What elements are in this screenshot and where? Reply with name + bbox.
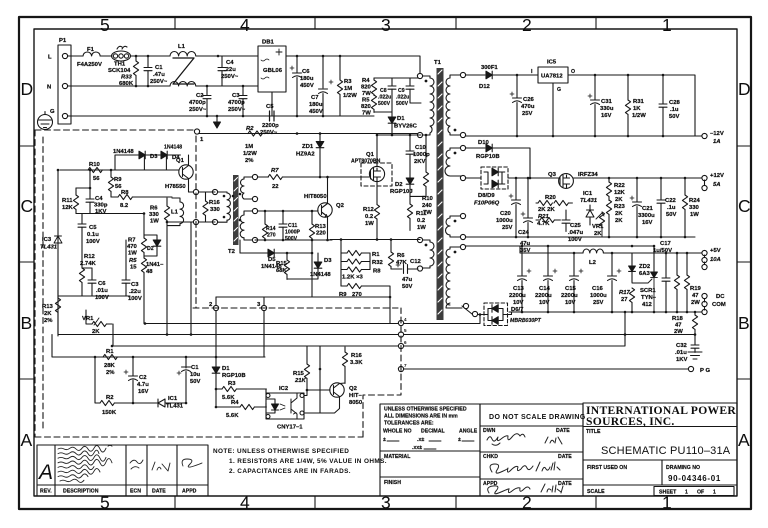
svg-text:GBL06: GBL06 [263, 68, 283, 74]
wire sec B top [465, 147, 485, 149]
svg-text:50V: 50V [666, 212, 677, 218]
svg-text:H78550: H78550 [165, 184, 186, 190]
svg-text:.01u: .01u [675, 350, 687, 356]
svg-text:DESCRIPTION: DESCRIPTION [63, 489, 99, 495]
svg-text:R11: R11 [62, 198, 73, 204]
boundary crossing node 222 [193, 219, 198, 224]
svg-text:DATE: DATE [556, 428, 570, 434]
wire L [68, 55, 84, 57]
svg-text:D3: D3 [150, 154, 158, 160]
svg-text:10V: 10V [539, 300, 550, 306]
svg-text:250V~: 250V~ [228, 107, 246, 113]
node 2 [213, 297, 218, 357]
ECN handwriting [130, 460, 143, 469]
svg-text:1/2W: 1/2W [243, 151, 257, 157]
svg-text:R16: R16 [209, 200, 221, 206]
thermistor TH1 [112, 46, 131, 61]
svg-text:500V: 500V [285, 236, 298, 242]
dashed mid horizontal [193, 307, 398, 309]
svg-text:300F1: 300F1 [481, 65, 498, 71]
T1 bias winding [421, 240, 434, 268]
svg-text:D10: D10 [478, 140, 490, 146]
svg-text:G: G [557, 87, 561, 93]
svg-text:R20: R20 [545, 195, 557, 201]
SCR1 thyristor [632, 246, 657, 312]
capacitor C8 [388, 78, 396, 112]
diode D2b [144, 235, 161, 256]
dashed left edge [34, 130, 36, 437]
svg-text:3: 3 [381, 15, 391, 35]
svg-text:90-04346-01: 90-04346-01 [668, 474, 721, 483]
svg-text:R1: R1 [106, 349, 114, 355]
svg-text:IRFZ34: IRFZ34 [578, 172, 598, 178]
terminal +5V s2 [702, 262, 707, 270]
svg-text:TOLERANCES ARE:: TOLERANCES ARE: [384, 421, 434, 427]
shunt reg IC1 [586, 205, 594, 225]
svg-text:CNY17–1: CNY17–1 [277, 425, 303, 431]
svg-text:.022u: .022u [378, 95, 391, 101]
resistor R23 [606, 200, 611, 237]
svg-text:470: 470 [127, 244, 138, 250]
svg-text:C2: C2 [196, 93, 204, 99]
resistor R21 [536, 217, 560, 222]
svg-text:270: 270 [352, 292, 363, 298]
resistor R6b330 [164, 198, 169, 253]
svg-text:R8: R8 [373, 269, 381, 275]
svg-text:1: 1 [685, 490, 688, 496]
svg-text:330: 330 [149, 212, 160, 218]
svg-text:DATE: DATE [558, 454, 572, 460]
svg-text:25V: 25V [593, 300, 604, 306]
svg-text:R8: R8 [121, 190, 129, 196]
optocoupler IC2 [266, 393, 304, 419]
svg-text:500V: 500V [378, 101, 391, 107]
svg-text:+12V: +12V [710, 173, 724, 179]
svg-text:25V: 25V [522, 111, 533, 117]
svg-text:P1: P1 [59, 38, 67, 44]
svg-text:1N41–: 1N41– [146, 262, 164, 268]
resistor bundle R8 [341, 267, 370, 272]
zone tick right [737, 378, 751, 380]
resistor R19 [684, 253, 689, 312]
Q2 base wire [317, 210, 319, 212]
svg-text:4.7u: 4.7u [137, 382, 149, 388]
svg-text:R13: R13 [42, 304, 54, 310]
resistor R4b [216, 403, 266, 410]
svg-text:1: 1 [713, 490, 716, 496]
svg-text:OF: OF [697, 490, 704, 496]
snubber C10 [406, 135, 414, 179]
svg-text:56: 56 [93, 176, 100, 182]
resistor R2 [248, 131, 262, 136]
dashed primary/secondary divider [195, 136, 197, 308]
signature DWN handwriting [487, 434, 563, 494]
svg-text:16V: 16V [642, 220, 653, 226]
resistor R2b [95, 357, 154, 406]
T1 secondary B winding [445, 148, 463, 176]
svg-text:5: 5 [404, 328, 407, 333]
svg-text:ALL DIMENSIONS ARE IN mm: ALL DIMENSIONS ARE IN mm [384, 414, 458, 420]
svg-text:Q2: Q2 [349, 386, 358, 392]
Q1 dashed enclosure [361, 163, 392, 186]
resistor R5 [371, 95, 376, 112]
svg-text:1M: 1M [245, 144, 253, 150]
svg-text:2: 2 [209, 302, 213, 308]
svg-text:.01u: .01u [96, 288, 108, 294]
svg-text:47: 47 [692, 293, 699, 299]
bottom wire of drive cluster [255, 239, 332, 241]
T2 right winding upper [241, 177, 256, 199]
trimmer VR1 [596, 212, 605, 236]
resistor R16b [342, 347, 347, 383]
svg-text:10V: 10V [565, 300, 576, 306]
PG wire [401, 368, 688, 370]
svg-text:100V: 100V [568, 237, 582, 243]
svg-text:C26: C26 [523, 97, 535, 103]
svg-text:.x±: .x± [417, 437, 424, 443]
capacitor C26 [510, 75, 522, 136]
svg-text:1N4148: 1N4148 [164, 145, 182, 151]
svg-text:180u: 180u [309, 102, 323, 108]
svg-text:UA7812: UA7812 [541, 74, 563, 80]
wire emitter to T2 [167, 192, 215, 222]
resistor R18 [692, 312, 697, 334]
zone tick top 4/3 [314, 17, 316, 29]
svg-text:450V: 450V [309, 109, 323, 115]
svg-text:O: O [571, 69, 575, 75]
resistor R10b [88, 167, 102, 172]
svg-text:R17: R17 [619, 290, 631, 296]
svg-text:15: 15 [130, 265, 137, 271]
svg-text:L1: L1 [171, 210, 179, 216]
svg-text:0.1u: 0.1u [87, 232, 99, 238]
svg-text:NOTE: UNLESS OTHERWISE SPECIFI: NOTE: UNLESS OTHERWISE SPECIFIED [213, 448, 349, 455]
wire cluster bottom [287, 253, 318, 297]
earth ground symbol [38, 112, 53, 130]
capacitor C21 [630, 178, 642, 237]
svg-text:.xx±: .xx± [412, 445, 422, 451]
dual diode D8/D9 [481, 167, 508, 189]
svg-text:HZ9A2: HZ9A2 [296, 152, 315, 158]
svg-text:1.2K ×3: 1.2K ×3 [342, 275, 364, 281]
svg-text:R9: R9 [114, 177, 122, 183]
svg-text:4: 4 [240, 493, 250, 513]
svg-text:.047u: .047u [568, 230, 583, 236]
svg-text:7W: 7W [362, 91, 371, 97]
svg-text:R23: R23 [614, 204, 626, 210]
svg-text:330: 330 [210, 207, 221, 213]
svg-text:C20: C20 [500, 211, 512, 217]
terminal PG [688, 366, 693, 371]
wire node23 top [216, 296, 390, 298]
choke L1 [170, 51, 196, 86]
node 7 [398, 366, 403, 371]
svg-text:D1: D1 [222, 366, 230, 372]
wire sec A top [465, 74, 485, 76]
svg-text:12K: 12K [62, 205, 74, 211]
svg-text:C15: C15 [565, 286, 577, 292]
zone tick top 5/4 [174, 17, 176, 29]
svg-text:1W: 1W [365, 221, 374, 227]
do-not-scale / sign box [480, 404, 583, 496]
svg-text:2K: 2K [615, 211, 623, 217]
svg-text:4700p: 4700p [228, 100, 245, 106]
trimmer VR1b [86, 310, 112, 327]
pin L [62, 53, 67, 58]
svg-text:DATE: DATE [152, 489, 166, 495]
svg-text:IC1: IC1 [168, 396, 178, 402]
svg-text:R2: R2 [106, 395, 114, 401]
svg-text:250V~: 250V~ [189, 107, 207, 113]
resistor R9 [341, 283, 390, 323]
svg-text:1K: 1K [633, 106, 641, 112]
T2 right terminals [252, 174, 257, 179]
capacitor C6b [82, 268, 96, 296]
svg-text:C1: C1 [191, 365, 199, 371]
svg-text:2.74K: 2.74K [80, 261, 96, 267]
svg-text:MATERIAL: MATERIAL [384, 454, 411, 460]
svg-text:0.2: 0.2 [365, 214, 374, 220]
svg-text:APT8070BN: APT8070BN [351, 159, 381, 165]
svg-text:R9: R9 [339, 292, 347, 298]
terminal +12V [702, 175, 707, 180]
svg-text:2200u: 2200u [509, 293, 526, 299]
wire [196, 85, 258, 87]
node 4 [398, 320, 403, 325]
svg-text:C4: C4 [95, 196, 103, 202]
svg-text:SHEET: SHEET [659, 490, 677, 496]
capacitor C20 [509, 178, 521, 237]
zone tick left [19, 378, 34, 380]
T1 primary terminal bottom [417, 132, 422, 137]
resistor R22 [606, 178, 611, 200]
wire y347 [113, 324, 401, 346]
resistor R20 pair [536, 200, 572, 205]
svg-text:5: 5 [100, 15, 110, 35]
svg-text:2%: 2% [44, 318, 53, 324]
dashed top edge [35, 129, 193, 131]
bias C12 cap [391, 263, 418, 274]
svg-text:680K: 680K [119, 81, 134, 87]
svg-text:R19: R19 [690, 286, 702, 292]
resistor R3 [337, 56, 342, 116]
svg-text:1/2W: 1/2W [632, 113, 646, 119]
svg-text:C5: C5 [266, 104, 274, 110]
svg-text:1000P: 1000P [285, 230, 301, 236]
capacitor C1b [177, 357, 191, 403]
svg-text:C12: C12 [410, 259, 422, 265]
HV- wire [197, 133, 421, 135]
Q2 collector wire [327, 177, 329, 202]
T1 secondary C terminals [460, 213, 465, 218]
boundary crossing node 192 [193, 189, 198, 194]
svg-text:C: C [738, 196, 751, 216]
svg-text:R24: R24 [689, 198, 701, 204]
wire y336 [58, 334, 401, 336]
svg-text:P G: P G [700, 368, 710, 374]
zone tick right [737, 261, 751, 263]
T1/Q1 labels [339, 60, 442, 298]
wire node4 [401, 315, 480, 324]
svg-text:28K: 28K [104, 363, 116, 369]
resistor R16 [203, 192, 208, 222]
svg-text:R18: R18 [672, 316, 684, 322]
svg-text:100V: 100V [128, 296, 142, 302]
svg-text:7W: 7W [362, 111, 371, 117]
svg-text:.1u: .1u [670, 107, 679, 113]
wire D6/7 input [478, 314, 489, 316]
svg-text:2K 2K: 2K 2K [538, 207, 555, 213]
svg-text:TL431: TL431 [166, 404, 184, 410]
svg-text:C1: C1 [155, 65, 163, 71]
capacitor C14 [544, 246, 558, 312]
resistor R12 [374, 205, 379, 240]
T1 secondary C winding [446, 216, 464, 237]
svg-text:A: A [21, 430, 33, 450]
svg-text:I: I [531, 69, 533, 75]
svg-text:A: A [37, 461, 53, 484]
diode D4 [144, 151, 180, 159]
svg-text:.47u: .47u [153, 72, 165, 78]
svg-text:12K: 12K [614, 190, 626, 196]
wire [131, 55, 171, 57]
svg-text:C14: C14 [539, 286, 551, 292]
svg-text:1A: 1A [713, 139, 721, 145]
svg-text:SCK104: SCK104 [108, 68, 131, 74]
source return rail [330, 239, 420, 241]
svg-text:L1: L1 [178, 44, 186, 50]
svg-text:R7: R7 [271, 168, 279, 174]
svg-text:F10P06Q: F10P06Q [474, 201, 500, 207]
winding polarity dots [425, 80, 457, 254]
wire [58, 295, 130, 297]
svg-text:R3: R3 [228, 381, 236, 387]
snubber resistor R10 [423, 135, 428, 196]
svg-text:RGP10B: RGP10B [476, 154, 500, 160]
svg-text:1W: 1W [150, 219, 159, 225]
svg-text:2. CAPACITANCES ARE IN FARADS.: 2. CAPACITANCES ARE IN FARADS. [229, 468, 351, 475]
diode D12 [486, 71, 538, 79]
svg-text:VR1: VR1 [592, 224, 604, 230]
svg-text:450V: 450V [300, 83, 314, 89]
wire to Q3 [508, 177, 559, 179]
T2 left winding upper [215, 192, 230, 222]
svg-text:DECIMAL: DECIMAL [421, 429, 445, 435]
svg-text:1: 1 [200, 137, 204, 143]
svg-text:Q1: Q1 [366, 152, 375, 158]
capacitor C4b [76, 170, 94, 214]
svg-text:C7: C7 [311, 95, 319, 101]
svg-text:R12: R12 [363, 207, 375, 213]
T2 left terminals [212, 189, 217, 194]
svg-text:RGP10J: RGP10J [390, 189, 413, 195]
capacitor C3 [239, 86, 247, 116]
capacitor C28 [659, 75, 667, 136]
shunt reg IC1b [154, 399, 186, 407]
resistor bundle R1 [341, 240, 370, 256]
zone tick right [737, 145, 751, 147]
zone tick bottom [595, 496, 597, 509]
terminal DC COM s1 [702, 301, 707, 310]
svg-text:REV.: REV. [40, 489, 52, 495]
svg-text:CHKD: CHKD [483, 454, 498, 460]
svg-text:DATE: DATE [558, 481, 572, 487]
signature APPD handwriting [488, 486, 530, 494]
primary input labels [47, 38, 418, 164]
svg-text:100V: 100V [95, 295, 109, 301]
svg-text:T1: T1 [434, 60, 442, 66]
capacitor C6 electrolytic [290, 56, 302, 116]
inductor L1b [167, 198, 184, 226]
svg-text:5A: 5A [713, 182, 721, 188]
resistor R3b [216, 386, 266, 393]
svg-text:R1: R1 [372, 252, 380, 258]
svg-text:B: B [21, 313, 33, 333]
svg-text:50V: 50V [190, 379, 201, 385]
svg-text:2W: 2W [674, 329, 683, 335]
svg-text:820: 820 [361, 85, 372, 91]
svg-text:C8: C8 [380, 88, 387, 94]
Q2b emitter wire [320, 399, 340, 414]
svg-text:IC5: IC5 [547, 60, 557, 66]
svg-text:+5V: +5V [710, 248, 721, 254]
svg-text:L2: L2 [589, 260, 597, 266]
Q2 emitter wire [327, 219, 329, 241]
svg-text:D: D [21, 79, 34, 99]
svg-text:500V: 500V [396, 101, 409, 107]
svg-text:2KV: 2KV [414, 159, 426, 165]
diode D1 [388, 112, 396, 134]
svg-text:250V~: 250V~ [260, 130, 278, 136]
svg-text:.22u: .22u [129, 289, 141, 295]
T1 secondary A winding [446, 75, 463, 135]
dashed step [363, 308, 401, 437]
dashed bottom edge [35, 436, 363, 438]
D3 D4 junction wires [144, 155, 166, 170]
diode D10 [486, 144, 530, 178]
svg-text:47: 47 [675, 323, 682, 329]
svg-text:C3: C3 [131, 282, 139, 288]
terminal DC COM s2 [702, 293, 707, 302]
svg-text:412: 412 [642, 302, 653, 308]
svg-text:10u: 10u [190, 372, 201, 378]
transistor Q2b [330, 383, 345, 399]
svg-text:±: ± [383, 437, 386, 443]
node 5 [398, 332, 403, 337]
svg-text:WHOLE NO: WHOLE NO [383, 429, 412, 435]
wire N [68, 85, 171, 87]
mosfet Q3 [559, 174, 574, 189]
dashed inner left edge [42, 137, 44, 430]
svg-text:SCHEMATIC PU110–31A: SCHEMATIC PU110–31A [601, 445, 731, 457]
T1 secondary B terminals [460, 145, 465, 150]
svg-text:R2: R2 [246, 126, 254, 132]
T1 secondary D terminals [460, 244, 465, 249]
svg-text:R7: R7 [128, 238, 136, 244]
svg-text:R22: R22 [614, 183, 626, 189]
svg-text:2200u: 2200u [535, 293, 552, 299]
svg-text:R32: R32 [372, 260, 384, 266]
wire Q2 base rail [257, 210, 318, 212]
svg-text:C28: C28 [669, 100, 681, 106]
svg-text:1000u: 1000u [590, 293, 607, 299]
pin G [62, 113, 67, 118]
svg-text:4700p: 4700p [189, 100, 206, 106]
wire x167 drop [166, 253, 168, 335]
svg-text:6A3: 6A3 [639, 271, 651, 277]
svg-text:1N4148: 1N4148 [113, 149, 134, 155]
svg-text:R6: R6 [397, 253, 405, 259]
